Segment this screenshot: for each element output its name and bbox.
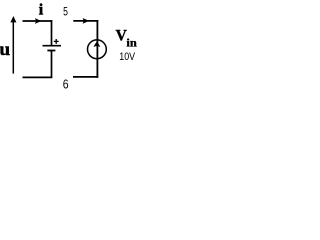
svg-text:6: 6 <box>63 78 69 92</box>
label V_in <box>116 28 138 50</box>
svg-text:10V: 10V <box>119 51 135 63</box>
battery plus plate (long) <box>43 45 62 47</box>
wire: bottom-right segment (source to node 6) <box>73 76 98 78</box>
wire: middle branch upper (to battery + plate) <box>51 20 53 45</box>
svg-text:u: u <box>0 39 10 59</box>
current arrowhead on top-right wire <box>83 18 90 24</box>
battery minus plate (short) <box>47 50 55 52</box>
label i (current) <box>39 1 44 18</box>
svg-text:i: i <box>39 1 44 18</box>
source V_in circle <box>88 40 107 59</box>
wire: right branch vertical (through source) <box>96 20 98 78</box>
node 5 label <box>63 5 68 19</box>
wire: top-right segment (node 5 to source) <box>73 20 98 22</box>
svg-text:in: in <box>126 38 137 50</box>
node 6 label <box>63 78 69 92</box>
label u (voltage) <box>0 39 10 59</box>
source polarity arrowhead (up, inside circle) <box>93 41 100 47</box>
wire: bottom-left segment (node 6 side) <box>23 76 53 78</box>
voltage arrow u (shaft) <box>12 22 14 74</box>
current arrowhead on top-left wire <box>35 18 42 24</box>
polarity + sign <box>54 39 59 44</box>
wire: middle branch lower <box>51 51 53 78</box>
voltage arrow u (head, pointing up) <box>10 16 16 22</box>
value label 10V <box>119 51 135 63</box>
svg-text:5: 5 <box>63 5 68 19</box>
wire: top-left segment (node 5 side) <box>23 20 53 22</box>
